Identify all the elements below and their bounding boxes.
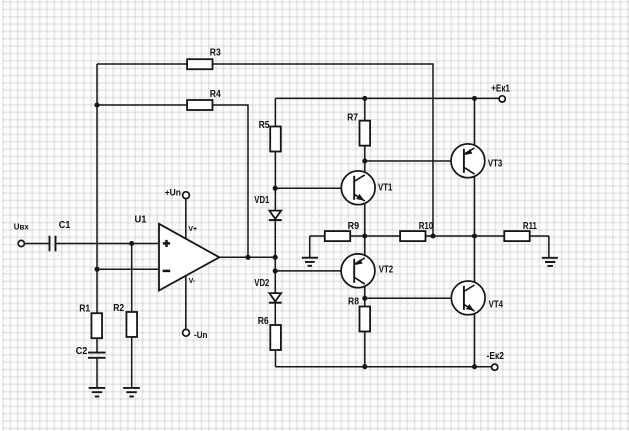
svg-text:+Un: +Un — [165, 187, 181, 197]
svg-text:VT3: VT3 — [488, 159, 503, 170]
svg-text:-Un: -Un — [194, 330, 208, 340]
svg-text:VT4: VT4 — [489, 299, 504, 310]
svg-text:R11: R11 — [523, 221, 537, 232]
svg-text:R2: R2 — [113, 303, 124, 314]
svg-text:R3: R3 — [210, 48, 221, 59]
svg-text:V+: V+ — [188, 226, 197, 233]
svg-text:V-: V- — [189, 278, 196, 285]
svg-text:R5: R5 — [259, 120, 270, 131]
svg-text:VD1: VD1 — [254, 195, 269, 206]
svg-text:-Ек2: -Ек2 — [487, 351, 505, 362]
svg-text:R6: R6 — [258, 316, 269, 327]
svg-text:R10: R10 — [419, 221, 434, 232]
svg-text:R8: R8 — [348, 297, 359, 308]
svg-text:U1: U1 — [135, 215, 147, 226]
svg-text:R4: R4 — [210, 89, 221, 100]
svg-text:+Ек1: +Ек1 — [491, 83, 510, 94]
svg-text:R9: R9 — [348, 221, 360, 232]
svg-text:VD2: VD2 — [254, 278, 269, 289]
svg-text:R7: R7 — [347, 113, 358, 124]
svg-text:Uвх: Uвх — [14, 222, 30, 231]
svg-text:VT1: VT1 — [378, 182, 393, 193]
svg-text:C2: C2 — [76, 346, 88, 357]
svg-text:R1: R1 — [79, 304, 90, 315]
svg-text:VT2: VT2 — [379, 264, 394, 275]
svg-text:C1: C1 — [59, 220, 71, 231]
